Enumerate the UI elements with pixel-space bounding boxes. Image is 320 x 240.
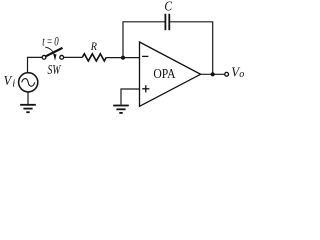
svg-text:OPA: OPA <box>153 67 176 82</box>
node output junction <box>211 72 215 76</box>
svg-text:R: R <box>90 39 98 53</box>
svg-text:C: C <box>164 0 173 14</box>
minus input sign <box>142 55 148 57</box>
svg-text:o: o <box>239 69 244 80</box>
op-amp U1 OPA <box>140 42 201 106</box>
wire feedback left up to capacitor <box>123 22 165 58</box>
voltage source Vi <box>19 73 38 92</box>
wire source bottom to ground <box>27 92 29 104</box>
wire output <box>201 73 225 75</box>
plus input sign <box>142 85 149 92</box>
terminal Vo <box>225 72 229 76</box>
svg-text:i: i <box>12 77 15 89</box>
resistor R <box>82 54 106 61</box>
node junction at inverting input <box>121 56 125 60</box>
label Vi <box>4 74 16 90</box>
wire switch to resistor <box>64 56 83 58</box>
svg-text:t = 0: t = 0 <box>42 35 59 49</box>
wire capacitor to output node <box>170 22 213 75</box>
svg-text:SW: SW <box>48 62 62 77</box>
label Vo <box>231 65 244 80</box>
capacitor C <box>165 14 169 30</box>
wire source top to switch <box>28 57 43 72</box>
wire plus input to ground <box>121 89 140 105</box>
ground at source <box>20 105 36 112</box>
svg-text:V: V <box>4 74 13 89</box>
switch SW <box>42 47 64 61</box>
wire resistor to op-amp <box>106 57 139 59</box>
ground at op-amp plus input <box>113 106 129 113</box>
